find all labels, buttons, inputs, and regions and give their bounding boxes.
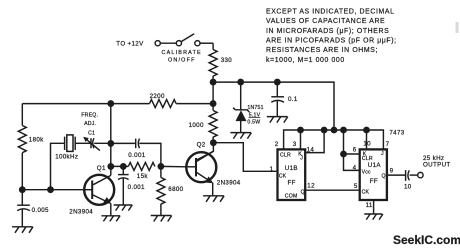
transistor Q1 2N3904: [84, 175, 114, 216]
svg-text:EXCEPT AS INDICATED, DECIMAL: EXCEPT AS INDICATED, DECIMAL: [266, 8, 395, 15]
svg-text:OUTPUT: OUTPUT: [423, 161, 451, 168]
node junction 330/+V rail: [210, 79, 215, 84]
svg-text:11: 11: [366, 202, 373, 209]
IC U1A 7473 box: [360, 149, 387, 200]
wire U1A pin9 output: [387, 174, 406, 176]
svg-text:5: 5: [354, 183, 358, 190]
svg-text:FF: FF: [288, 179, 296, 186]
svg-text:1: 1: [270, 166, 274, 173]
ground Q2 emitter: [203, 196, 224, 202]
svg-text:4: 4: [353, 165, 357, 172]
ground under 0.005: [12, 227, 33, 233]
wire U1B pin3 K to rail: [300, 130, 302, 149]
node junction trimmer/collector column: [108, 141, 113, 146]
svg-text:RESISTANCES ARE IN OHMS;: RESISTANCES ARE IN OHMS;: [266, 47, 378, 54]
svg-text:6800: 6800: [168, 186, 183, 193]
svg-text:7: 7: [386, 141, 390, 148]
wire left rail y=103.6: [22, 103, 149, 105]
trimmer capacitor C1: [83, 137, 111, 151]
wire collector column x=110.8: [110, 104, 112, 176]
svg-text:2N3904: 2N3904: [69, 209, 93, 216]
svg-text:k=1000, M=1 000 000: k=1000, M=1 000 000: [266, 57, 345, 64]
wire route to U1B pin 1: [213, 143, 277, 172]
svg-text:ON/OFF: ON/OFF: [168, 57, 196, 63]
node junction pin6/pin4: [341, 151, 346, 156]
resistor R 6800: [157, 166, 165, 215]
svg-text:9: 9: [390, 168, 394, 175]
svg-text:ADJ.: ADJ.: [84, 121, 96, 127]
zener diode D1 1N751: [233, 82, 249, 133]
svg-text:IN MICROFARADS (μF); OTHERS: IN MICROFARADS (μF); OTHERS: [266, 28, 389, 35]
wire 15k left segment: [111, 165, 129, 167]
wire U1B pin12 Q to U1A pin5 CK: [305, 189, 360, 191]
node junction bypass cap tap: [121, 164, 126, 169]
svg-text:U1A: U1A: [368, 162, 382, 169]
svg-text:SeekIC.com: SeekIC.com: [393, 233, 460, 247]
resistor R 1000: [209, 111, 217, 138]
svg-text:VALUES OF CAPACITANCE ARE: VALUES OF CAPACITANCE ARE: [266, 18, 385, 25]
svg-text:10: 10: [404, 184, 412, 191]
svg-text:C1: C1: [88, 131, 95, 137]
svg-text:100kHz: 100kHz: [55, 154, 78, 161]
svg-text:1N751: 1N751: [247, 105, 263, 111]
svg-text:0.5W: 0.5W: [247, 119, 260, 125]
wire U1A pin11 ground lead: [373, 200, 375, 214]
wire U1A pin4 Vcc feed: [344, 154, 360, 170]
ground under 6800: [151, 216, 172, 222]
svg-text:Q: Q: [382, 174, 386, 180]
svg-text:7473: 7473: [389, 130, 404, 137]
node junction 0.1 tap: [275, 79, 280, 84]
svg-text:10: 10: [363, 140, 371, 147]
resistor R 2200: [150, 100, 177, 108]
wire U1B pin14 J: [305, 130, 324, 153]
wire 2200 right lead: [176, 103, 213, 105]
scan artifact bar: [456, 22, 459, 33]
svg-text:12: 12: [307, 183, 315, 190]
resistor R 180k: [18, 104, 26, 190]
svg-text:CK: CK: [279, 174, 287, 180]
svg-text:TO +12V: TO +12V: [116, 40, 144, 47]
svg-text:6: 6: [353, 147, 357, 154]
wire Q1 base rail: [22, 189, 84, 191]
svg-text:J: J: [381, 151, 384, 157]
node junction 15k right / 6800 top: [158, 164, 163, 169]
svg-text:2: 2: [275, 141, 279, 148]
svg-text:0.001: 0.001: [128, 184, 145, 191]
svg-text:ARE IN PICOFARADS (pF OR μμF);: ARE IN PICOFARADS (pF OR μμF);: [266, 38, 397, 45]
node junction rail pin10: [364, 127, 369, 132]
wire U1A pin10 K to rail: [366, 130, 368, 149]
wire Q1 collector diagonal: [93, 175, 111, 184]
ground under bypass cap: [114, 205, 133, 211]
svg-text:FF: FF: [370, 178, 378, 185]
node junction base rail left: [20, 187, 25, 192]
capacitor C 0.001 coupling top: [111, 139, 161, 167]
svg-text:COM: COM: [285, 194, 298, 200]
wire 1000 bottom to Q2 collector junction: [212, 137, 214, 143]
crystal Y1 100kHz: [65, 135, 91, 152]
capacitor C 0.001 bypass: [118, 166, 129, 205]
svg-text:330: 330: [221, 57, 233, 64]
svg-text:J: J: [300, 156, 303, 162]
capacitor C 0.1: [271, 82, 284, 117]
node junction rail pin3: [298, 127, 303, 132]
ground under zener: [230, 133, 251, 139]
svg-text:Q2: Q2: [197, 142, 206, 149]
node output terminal: [418, 172, 423, 177]
svg-text:1000: 1000: [189, 122, 204, 129]
node junction 2200 right: [210, 101, 215, 106]
svg-text:CLR: CLR: [280, 152, 291, 158]
svg-text:0.001: 0.001: [128, 152, 145, 159]
node junction rail pin14: [321, 127, 326, 132]
svg-text:180k: 180k: [29, 136, 44, 143]
capacitor C 0.005: [17, 190, 30, 227]
wire 330 top lead: [212, 43, 214, 49]
svg-text:2N3904: 2N3904: [217, 180, 241, 187]
node junction rail +12V drop: [331, 127, 336, 132]
wire vertical main x=213 between junctions: [212, 82, 214, 110]
node junction collector/15k left: [108, 164, 113, 169]
svg-text:Q: Q: [301, 190, 305, 196]
svg-text:14: 14: [307, 147, 315, 154]
svg-text:3: 3: [293, 141, 297, 148]
svg-text:CK: CK: [362, 190, 370, 196]
wire U1A pin6 CLR feed: [344, 130, 360, 154]
svg-text:U1B: U1B: [285, 165, 298, 172]
resistor R 330: [209, 50, 217, 77]
node +12V terminal circles and calibrate switch: [155, 34, 200, 46]
wire switch to 330: [200, 42, 213, 44]
svg-text:0.1: 0.1: [288, 96, 298, 103]
svg-text:2200: 2200: [150, 93, 165, 100]
ground Q1 emitter: [101, 216, 120, 222]
svg-text:Q1: Q1: [97, 165, 106, 172]
wire 330 bottom to junction: [212, 76, 214, 82]
IC U1B 7473 box: [278, 149, 306, 200]
note text block: [266, 8, 397, 64]
svg-text:0.005: 0.005: [32, 207, 49, 214]
wire U1B pin2 CLR to rail: [284, 130, 384, 149]
node junction Q2 collector: [211, 140, 216, 145]
svg-text:CALIBRATE: CALIBRATE: [162, 50, 202, 56]
capacitor C 10 output: [406, 170, 418, 181]
node junction zener tap: [238, 79, 243, 84]
svg-text:5.1V: 5.1V: [249, 112, 261, 118]
wire to Q2 base: [161, 165, 186, 167]
svg-text:FREQ.: FREQ.: [81, 113, 98, 119]
wire +V rail y=82: [213, 82, 334, 130]
ground under 0.1: [267, 117, 288, 123]
svg-text:15k: 15k: [137, 173, 149, 180]
node junction crystal drop: [48, 187, 53, 192]
wire crystal left leg: [51, 143, 65, 189]
node junction collector column top: [108, 101, 113, 106]
transistor Q2 2N3904: [186, 151, 216, 196]
svg-text:Vcc: Vcc: [362, 170, 371, 176]
wire Q2 collector lead: [196, 143, 213, 161]
resistor R 15k: [128, 162, 155, 170]
ground U1A pin11: [364, 214, 383, 220]
node junction rail pin6: [341, 127, 346, 132]
